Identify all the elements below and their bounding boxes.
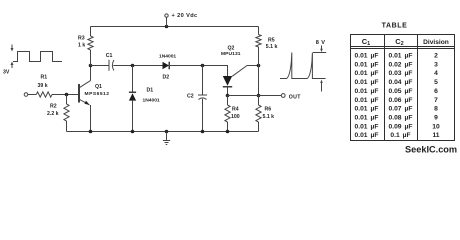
svg-text:0.09µF: 0.09µF	[389, 123, 413, 130]
svg-text:0.08µF: 0.08µF	[389, 114, 413, 121]
wire Q2 cathode	[227, 87, 229, 96]
node collector junction	[89, 64, 93, 68]
svg-text:0.07µF: 0.07µF	[389, 106, 413, 113]
svg-text:0.01µF: 0.01µF	[355, 97, 379, 104]
transistor Q1	[79, 81, 91, 105]
node out crossing	[257, 94, 261, 98]
table rows	[355, 53, 440, 140]
node cathode junction	[226, 94, 230, 98]
wire collector up	[90, 66, 92, 81]
wire C2 to bottom rail	[202, 99, 204, 132]
wire R2 to bottom rail	[66, 121, 68, 132]
svg-text:C2: C2	[187, 94, 194, 100]
svg-text:4: 4	[434, 70, 438, 77]
resistor R5	[256, 35, 261, 48]
svg-text:6: 6	[434, 88, 438, 95]
svg-text:R4: R4	[232, 107, 239, 113]
svg-text:+ 20 Vdc: + 20 Vdc	[172, 13, 198, 19]
resistor R3	[88, 36, 93, 50]
supply terminal	[165, 14, 168, 17]
svg-text:1N4001: 1N4001	[143, 97, 160, 103]
input amplitude arrow bottom	[11, 62, 14, 69]
node D1 bottom	[131, 130, 135, 134]
diode D2	[163, 62, 170, 70]
wire gate node to out node	[258, 66, 260, 96]
transistor Q2 (PUT)	[223, 66, 247, 87]
svg-text:5.1 k: 5.1 k	[263, 114, 275, 120]
table frame	[351, 35, 455, 141]
wire R3 branch	[90, 27, 92, 37]
svg-text:C2: C2	[395, 37, 403, 47]
wire R1 to base node	[52, 94, 79, 96]
node supply tap	[165, 25, 169, 29]
node emitter-rail	[89, 130, 93, 134]
svg-text:3: 3	[434, 61, 438, 68]
svg-text:5: 5	[434, 79, 438, 86]
ground	[163, 132, 170, 145]
svg-text:SeekIC.com: SeekIC.com	[405, 144, 457, 154]
svg-text:Q1: Q1	[95, 84, 102, 90]
input terminal	[24, 93, 28, 97]
wire base node down to R2	[66, 95, 68, 105]
svg-text:0.01µF: 0.01µF	[355, 114, 379, 121]
svg-text:0.06µF: 0.06µF	[389, 97, 413, 104]
svg-text:0.04µF: 0.04µF	[389, 79, 413, 86]
output amplitude arrow top	[320, 46, 323, 53]
svg-text:0.01µF: 0.01µF	[389, 53, 413, 60]
svg-text:0.1µF: 0.1µF	[390, 132, 410, 139]
svg-text:0.01µF: 0.01µF	[355, 88, 379, 95]
svg-text:Q2: Q2	[228, 46, 235, 52]
svg-text:MPU131: MPU131	[221, 51, 241, 57]
svg-text:2.2 k: 2.2 k	[47, 111, 59, 117]
svg-text:C1: C1	[106, 53, 113, 59]
svg-text:0.01µF: 0.01µF	[355, 61, 379, 68]
wire emitter down	[90, 105, 92, 132]
wire R5 to gate node	[258, 47, 260, 66]
resistor R2	[64, 104, 69, 121]
node gate junction	[257, 64, 261, 68]
svg-text:R3: R3	[78, 36, 85, 42]
diode D1	[129, 92, 136, 100]
capacitor C2	[198, 95, 207, 100]
svg-text:2: 2	[434, 53, 438, 60]
svg-text:D1: D1	[147, 88, 154, 94]
svg-text:R5: R5	[268, 38, 275, 44]
wire D2 to Q2 anode corner	[169, 66, 228, 77]
svg-text:0.01µF: 0.01µF	[355, 132, 379, 139]
resistor R6	[256, 96, 261, 132]
wire collector node to C1	[91, 65, 110, 67]
svg-text:8: 8	[434, 106, 438, 113]
wire C1 to D2	[113, 65, 162, 67]
svg-text:0.02µF: 0.02µF	[389, 61, 413, 68]
capacitor C1	[109, 60, 114, 71]
wire input to R1	[28, 94, 37, 96]
svg-text:8 V: 8 V	[316, 40, 326, 46]
svg-text:1N4001: 1N4001	[159, 53, 176, 59]
svg-text:9: 9	[434, 114, 438, 121]
node C2 tap	[201, 64, 205, 68]
svg-text:R6: R6	[265, 107, 272, 113]
node C2 bottom	[201, 130, 205, 134]
bottom rail wire	[67, 131, 259, 133]
svg-text:100: 100	[231, 114, 240, 120]
top rail wire	[91, 26, 259, 28]
svg-text:TABLE: TABLE	[382, 22, 408, 29]
svg-text:0.01µF: 0.01µF	[355, 123, 379, 130]
output peak tick	[313, 52, 326, 54]
svg-text:C1: C1	[362, 37, 370, 47]
svg-text:0.01µF: 0.01µF	[355, 53, 379, 60]
svg-text:0.01µF: 0.01µF	[355, 79, 379, 86]
svg-text:R2: R2	[50, 104, 57, 110]
node D1 top	[131, 64, 135, 68]
resistor R1	[36, 92, 52, 97]
svg-text:5.1 k: 5.1 k	[266, 44, 278, 50]
wire D1 branch	[132, 66, 134, 93]
svg-text:3V: 3V	[3, 70, 10, 76]
resistor R4	[225, 96, 230, 132]
svg-text:1 k: 1 k	[78, 42, 85, 48]
node base junction	[65, 93, 69, 97]
out terminal	[281, 94, 285, 98]
svg-text:10: 10	[432, 123, 440, 130]
svg-text:MPS6512: MPS6512	[85, 91, 110, 97]
svg-text:0.01µF: 0.01µF	[355, 70, 379, 77]
svg-text:39 k: 39 k	[38, 83, 48, 89]
input amplitude arrow top	[11, 45, 14, 52]
svg-text:0.05µF: 0.05µF	[389, 88, 413, 95]
wire out line	[228, 95, 282, 97]
wire gate to R5 node	[247, 65, 259, 67]
svg-text:0.01µF: 0.01µF	[355, 106, 379, 113]
input square wave	[13, 52, 62, 62]
svg-text:D2: D2	[163, 75, 170, 81]
wire R3 to collector node	[90, 50, 92, 66]
wire R5 branch top	[258, 27, 260, 35]
wire supply stub	[166, 17, 168, 26]
svg-text:0.03µF: 0.03µF	[389, 70, 413, 77]
wire D1 to bottom rail	[132, 101, 134, 132]
output waveform	[280, 53, 326, 79]
svg-text:OUT: OUT	[289, 95, 301, 101]
svg-text:R1: R1	[41, 75, 48, 81]
node ground tap	[165, 130, 169, 134]
node R4 bottom	[226, 130, 230, 134]
svg-text:7: 7	[434, 97, 438, 104]
svg-text:Division: Division	[423, 39, 449, 46]
svg-text:11: 11	[432, 132, 439, 139]
output amplitude arrow bottom	[320, 80, 323, 92]
wire C2 branch top	[202, 66, 204, 96]
